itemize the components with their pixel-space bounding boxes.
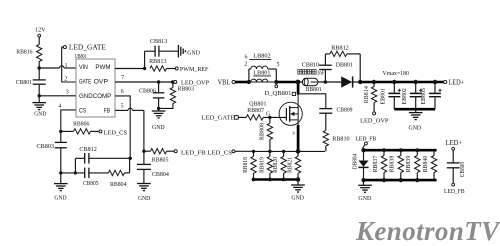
svg-text:RB820: RB820	[272, 157, 279, 173]
svg-text:RB803: RB803	[178, 85, 195, 92]
svg-text:PWM_REF: PWM_REF	[180, 66, 209, 73]
svg-text:LED_FB: LED_FB	[444, 188, 465, 195]
svg-text:CB803: CB803	[37, 143, 55, 150]
svg-text:GND: GND	[138, 195, 150, 202]
svg-text:KenotronTV: KenotronTV	[355, 216, 500, 246]
svg-text:LED+: LED+	[446, 140, 463, 147]
svg-text:RB810: RB810	[332, 135, 349, 142]
svg-text:GND: GND	[54, 195, 66, 202]
svg-text:CB805: CB805	[83, 180, 99, 187]
svg-text:GND: GND	[187, 50, 200, 57]
svg-text:GND: GND	[409, 124, 422, 131]
svg-text:DB801: DB801	[336, 62, 353, 69]
svg-text:RB807: RB807	[247, 107, 264, 114]
svg-text:RB839: RB839	[405, 156, 412, 173]
svg-text:FB: FB	[104, 107, 110, 114]
svg-text:RB838: RB838	[389, 156, 396, 173]
svg-text:LED_CS: LED_CS	[104, 130, 128, 137]
svg-text:RB837: RB837	[372, 156, 379, 173]
svg-text:EB803: EB803	[420, 88, 427, 104]
svg-text:12V: 12V	[35, 26, 46, 33]
svg-text:5: 5	[277, 62, 280, 68]
svg-text:LB802: LB802	[253, 52, 270, 59]
svg-text:RB818: RB818	[242, 157, 249, 173]
svg-text:D_QB801: D_QB801	[265, 90, 292, 97]
svg-text:RB840: RB840	[422, 156, 429, 173]
svg-text:RB806: RB806	[73, 120, 89, 127]
svg-text:CB801: CB801	[16, 79, 32, 86]
svg-text:GND: GND	[34, 111, 46, 118]
svg-text:6: 6	[245, 54, 248, 60]
svg-text:CS: CS	[79, 107, 87, 114]
svg-text:5: 5	[121, 103, 124, 109]
svg-text:RB819: RB819	[259, 157, 266, 173]
svg-text:2: 2	[244, 62, 247, 68]
svg-text:CB810: CB810	[302, 62, 319, 69]
svg-text:3nF: 3nF	[317, 70, 325, 76]
svg-text:GATE: GATE	[79, 79, 92, 86]
svg-text:EB802: EB802	[401, 88, 408, 104]
svg-text:1: 1	[65, 63, 68, 69]
svg-text:BB801: BB801	[306, 86, 322, 93]
svg-text:PWM: PWM	[95, 64, 110, 71]
svg-text:GNDCOMP: GNDCOMP	[79, 93, 111, 100]
svg-text:CB809: CB809	[337, 107, 353, 114]
svg-text:2: 2	[64, 76, 67, 82]
svg-text:LED_GATE: LED_GATE	[202, 115, 235, 122]
svg-text:LED_FB: LED_FB	[356, 135, 377, 142]
svg-text:RB812: RB812	[331, 45, 349, 52]
svg-text:GND: GND	[358, 195, 371, 202]
svg-text:LED_OVP: LED_OVP	[360, 117, 389, 124]
svg-text:LED_FB LED_CS: LED_FB LED_CS	[181, 149, 232, 156]
svg-text:GND: GND	[152, 124, 165, 131]
svg-text:RB805: RB805	[152, 156, 169, 163]
svg-text:VBL: VBL	[218, 79, 231, 86]
svg-text:LED_GATE: LED_GATE	[69, 44, 106, 52]
svg-text:CB804: CB804	[152, 171, 170, 178]
svg-text:LED+: LED+	[448, 79, 464, 86]
svg-text:VIN: VIN	[79, 64, 88, 71]
svg-text:CB808: CB808	[459, 162, 466, 177]
svg-text:RB813: RB813	[149, 58, 166, 65]
svg-text:CB812: CB812	[79, 146, 96, 153]
svg-text:Vmax=180: Vmax=180	[383, 70, 410, 77]
svg-text:CB813: CB813	[150, 38, 167, 45]
svg-text:GND: GND	[291, 195, 304, 202]
svg-text:EB801: EB801	[379, 88, 386, 104]
svg-text:OVP: OVP	[94, 79, 108, 86]
svg-text:4: 4	[58, 104, 61, 110]
svg-text:6: 6	[121, 89, 124, 95]
svg-text:RB808: RB808	[258, 123, 265, 140]
svg-text:DB804: DB804	[351, 153, 358, 169]
svg-text:RB804: RB804	[110, 181, 127, 188]
svg-text:7: 7	[121, 75, 124, 81]
svg-text:RB816: RB816	[16, 48, 32, 55]
svg-text:RB821: RB821	[287, 157, 294, 173]
svg-text:3: 3	[66, 89, 69, 95]
svg-text:RB814: RB814	[363, 85, 370, 103]
